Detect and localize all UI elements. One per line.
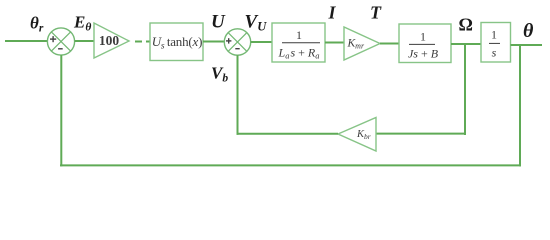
block saturation Us tanh(x) xyxy=(150,23,203,61)
wire saturation to S2 xyxy=(203,41,225,43)
svg-text:Js + B: Js + B xyxy=(408,47,439,61)
amplifier Kbr xyxy=(338,118,376,152)
svg-text:100: 100 xyxy=(99,33,120,48)
svg-text:T: T xyxy=(370,3,382,23)
wire Vb vertical up to S2 xyxy=(237,55,239,135)
wire dashed amp100 to saturation block xyxy=(135,41,150,43)
wire tap Omega down xyxy=(464,44,466,135)
block integrator 1/s xyxy=(481,23,511,63)
wire S2 to armature block xyxy=(251,41,272,43)
wire Kbr to Vb vertical xyxy=(237,133,339,135)
svg-text:Us tanh(x): Us tanh(x) xyxy=(152,34,203,52)
wire tap theta down xyxy=(519,45,521,166)
svg-text:s: s xyxy=(492,46,497,60)
amplifier 100 xyxy=(94,23,129,58)
block armature 1/(La s + Ra) xyxy=(272,23,325,62)
svg-text:Eθ: Eθ xyxy=(73,13,91,34)
svg-text:U: U xyxy=(211,12,226,33)
wire inertia to integrator with tap xyxy=(451,43,481,45)
wire outer feedback left vertical up to S1 xyxy=(60,55,62,166)
svg-text:I: I xyxy=(328,3,337,23)
wire S1 to amp100 xyxy=(75,40,94,42)
wire armature to Kmr xyxy=(325,42,344,44)
amplifier Kmr xyxy=(344,27,380,60)
block inertia 1/(Js + B) xyxy=(399,24,451,63)
wire input theta_r xyxy=(5,40,48,42)
wire outer feedback bottom horizontal xyxy=(60,164,521,166)
svg-text:1: 1 xyxy=(296,28,302,42)
svg-text:VU: VU xyxy=(245,12,268,34)
svg-text:Las + Ra: Las + Ra xyxy=(278,46,320,61)
wire Kmr to inertia block xyxy=(380,43,399,45)
wire integrator to output with tap xyxy=(511,44,543,46)
svg-text:1: 1 xyxy=(491,28,497,42)
svg-text:1: 1 xyxy=(420,30,426,44)
wire inner feedback right horizontal xyxy=(376,133,466,135)
svg-text:Ω: Ω xyxy=(459,15,473,35)
svg-text:θr: θr xyxy=(30,14,44,35)
summing junction S1 xyxy=(47,28,74,55)
summing junction S2 xyxy=(224,29,250,55)
svg-text:Vb: Vb xyxy=(211,64,228,85)
svg-text:θ: θ xyxy=(523,20,534,42)
